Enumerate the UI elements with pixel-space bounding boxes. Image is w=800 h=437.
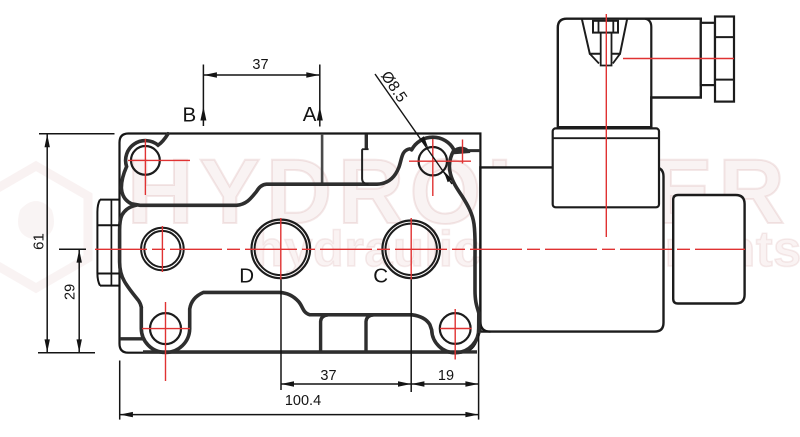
connector inner corner line (645, 19, 651, 128)
svg-text:19: 19 (438, 368, 454, 384)
port C double circle (382, 221, 440, 279)
cable gland neck (701, 23, 715, 85)
centerline left port vertical (161, 226, 163, 272)
section line A-A through body (321, 134, 324, 184)
61 dimension line (46, 134, 48, 352)
DIN connector body (558, 19, 701, 128)
coil upper block (553, 128, 659, 207)
extension line right (478, 333, 480, 420)
mounting hole bottom-right (440, 313, 471, 344)
61 arrows (45, 134, 50, 147)
pocket line bottom-left (120, 337, 143, 340)
bottom 37 arrows (281, 381, 294, 386)
top-right step notch (454, 149, 480, 152)
svg-text:37: 37 (320, 368, 336, 384)
centerline bottom-right hole (440, 309, 472, 360)
inner contour left side (120, 205, 142, 307)
hex plug (97, 200, 119, 286)
bottom edge thick overlays (143, 350, 477, 353)
connector horizontal centerline (623, 58, 734, 60)
svg-text:100.4: 100.4 (285, 393, 321, 409)
extension line left bottom (119, 361, 121, 420)
inner contour U around bottom-left hole (141, 292, 412, 352)
19 arrows (411, 381, 424, 386)
svg-text:C: C (373, 265, 388, 288)
solenoid end cap nut (673, 195, 744, 304)
svg-text:61: 61 (30, 233, 47, 250)
inner contour arc around top-right hole (412, 137, 454, 150)
svg-text:Ø8.5: Ø8.5 (377, 68, 410, 105)
B section/extension line (202, 65, 204, 127)
top 37 arrows (204, 72, 217, 77)
bottom 19 dimension line (411, 383, 478, 385)
main horizontal centerline (95, 248, 745, 250)
centerline top-left hole (128, 139, 190, 195)
extension line C (410, 280, 412, 393)
100.4 arrows (120, 412, 133, 417)
svg-text:A: A (303, 103, 317, 126)
centerline top-right hole (409, 139, 471, 196)
mounting hole top-left (131, 146, 160, 175)
port D double circle (251, 220, 310, 279)
mounting hole top-right (419, 147, 447, 175)
leader arrows (419, 136, 428, 148)
valve body outline (120, 134, 481, 353)
body bottom right fillet to solenoid base (480, 322, 490, 332)
bottom 100.4 dimension line (120, 414, 479, 416)
arrowheads (45, 72, 479, 417)
61 top tick (39, 133, 115, 135)
29 top tick (59, 248, 86, 250)
connector screw head (593, 21, 618, 33)
centerline notch feature (462, 140, 464, 164)
step slot near x=364 (365, 134, 368, 149)
29 dimension line (78, 250, 80, 353)
cusp wedge at notch junction (451, 147, 470, 155)
step verticals under contour (321, 315, 328, 352)
A section/extension line (319, 65, 321, 127)
svg-text:29: 29 (63, 284, 79, 300)
solenoid main body (480, 167, 663, 331)
inner contour U around bottom-right hole (412, 313, 479, 353)
solenoid vertical centerline (605, 14, 607, 237)
top 37 dimension line (204, 74, 319, 76)
shared bottom tick (38, 352, 95, 354)
inner contour right descending S-curve (449, 150, 478, 313)
left port double circle (141, 228, 184, 271)
29 arrows (77, 250, 82, 263)
svg-text:37: 37 (252, 57, 268, 73)
bottom 37 dimension line (281, 383, 411, 385)
cable gland nut (715, 17, 734, 102)
watermark hexagon logo (0, 166, 88, 288)
leader line Ø8.5 (375, 74, 452, 184)
centerline bottom-left hole (142, 302, 190, 381)
svg-text:D: D (239, 265, 254, 288)
dimension texts (30, 57, 454, 409)
centerline port C vertical (410, 218, 412, 281)
mounting hole bottom-left (150, 313, 181, 344)
inner contour upper run (121, 134, 409, 206)
svg-text:B: B (182, 103, 196, 126)
connector screw shaft (601, 33, 612, 66)
centerline port D vertical (280, 218, 282, 280)
extension line D (280, 280, 282, 391)
connector screw funnel (582, 19, 627, 54)
B A section arrows (200, 107, 206, 121)
